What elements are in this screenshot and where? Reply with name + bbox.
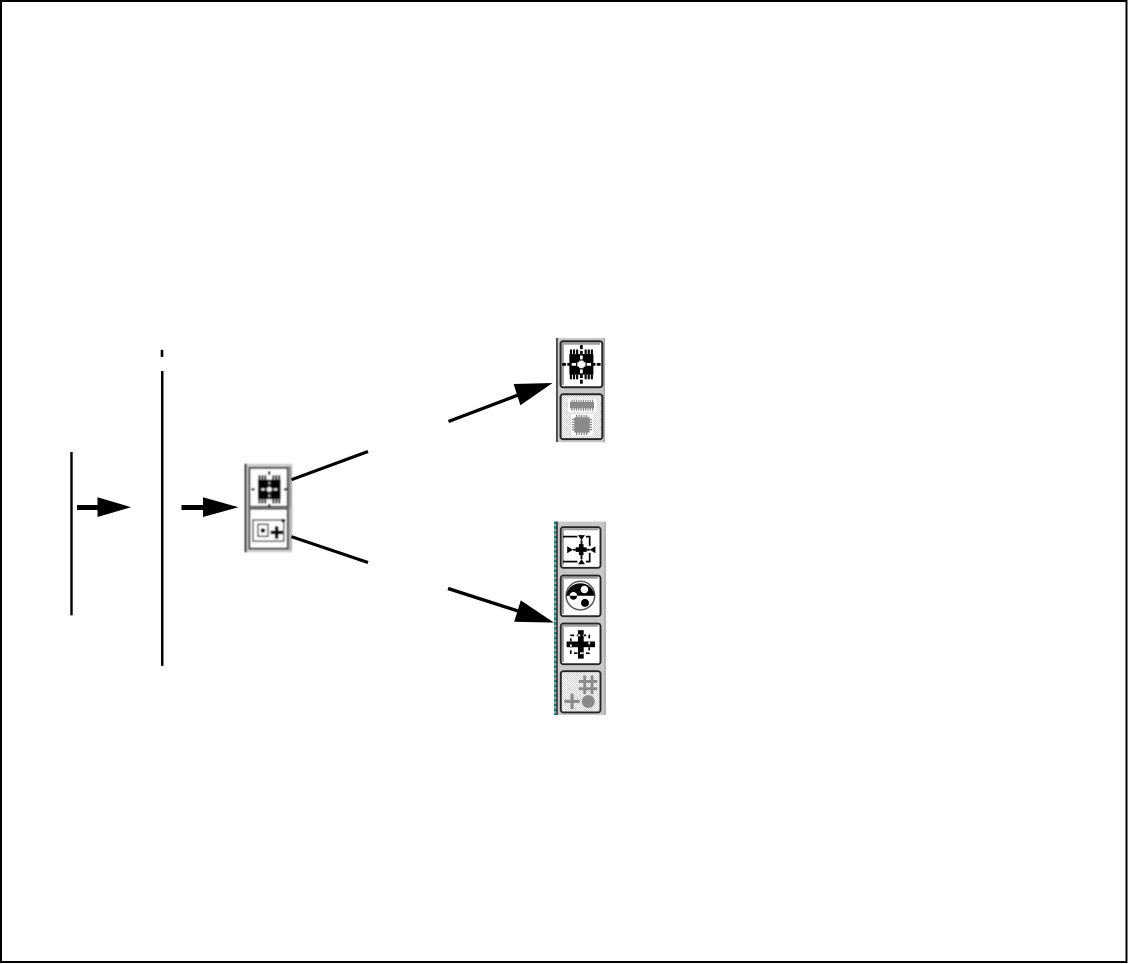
button: grid snap (disabled) [561, 671, 601, 712]
toolbar: ECO tools (2 buttons) [556, 338, 605, 442]
arrow 1 [77, 497, 131, 517]
button: add part (disabled) [561, 394, 603, 439]
connector line upper [292, 452, 369, 480]
button: add part with wizard (blurred) [250, 509, 288, 549]
toolbar: component palette (blurred, 2 buttons) [245, 464, 293, 553]
button: add component (checked) [561, 341, 603, 387]
arrow to ECO toolbar [449, 383, 553, 422]
toolbar: design tools (4 buttons) [555, 522, 606, 716]
button: place component (blurred) [250, 468, 288, 507]
button: move mode [561, 527, 601, 568]
arrow 2 [182, 497, 239, 517]
connector line lower [292, 537, 369, 563]
button: pad stacks [561, 576, 601, 617]
vertical line 1 [70, 452, 72, 615]
tick above vertical line 2 [161, 350, 164, 357]
vertical line 2 [161, 371, 164, 666]
button: add new label [561, 624, 601, 665]
arrow to design toolbar [448, 589, 554, 623]
